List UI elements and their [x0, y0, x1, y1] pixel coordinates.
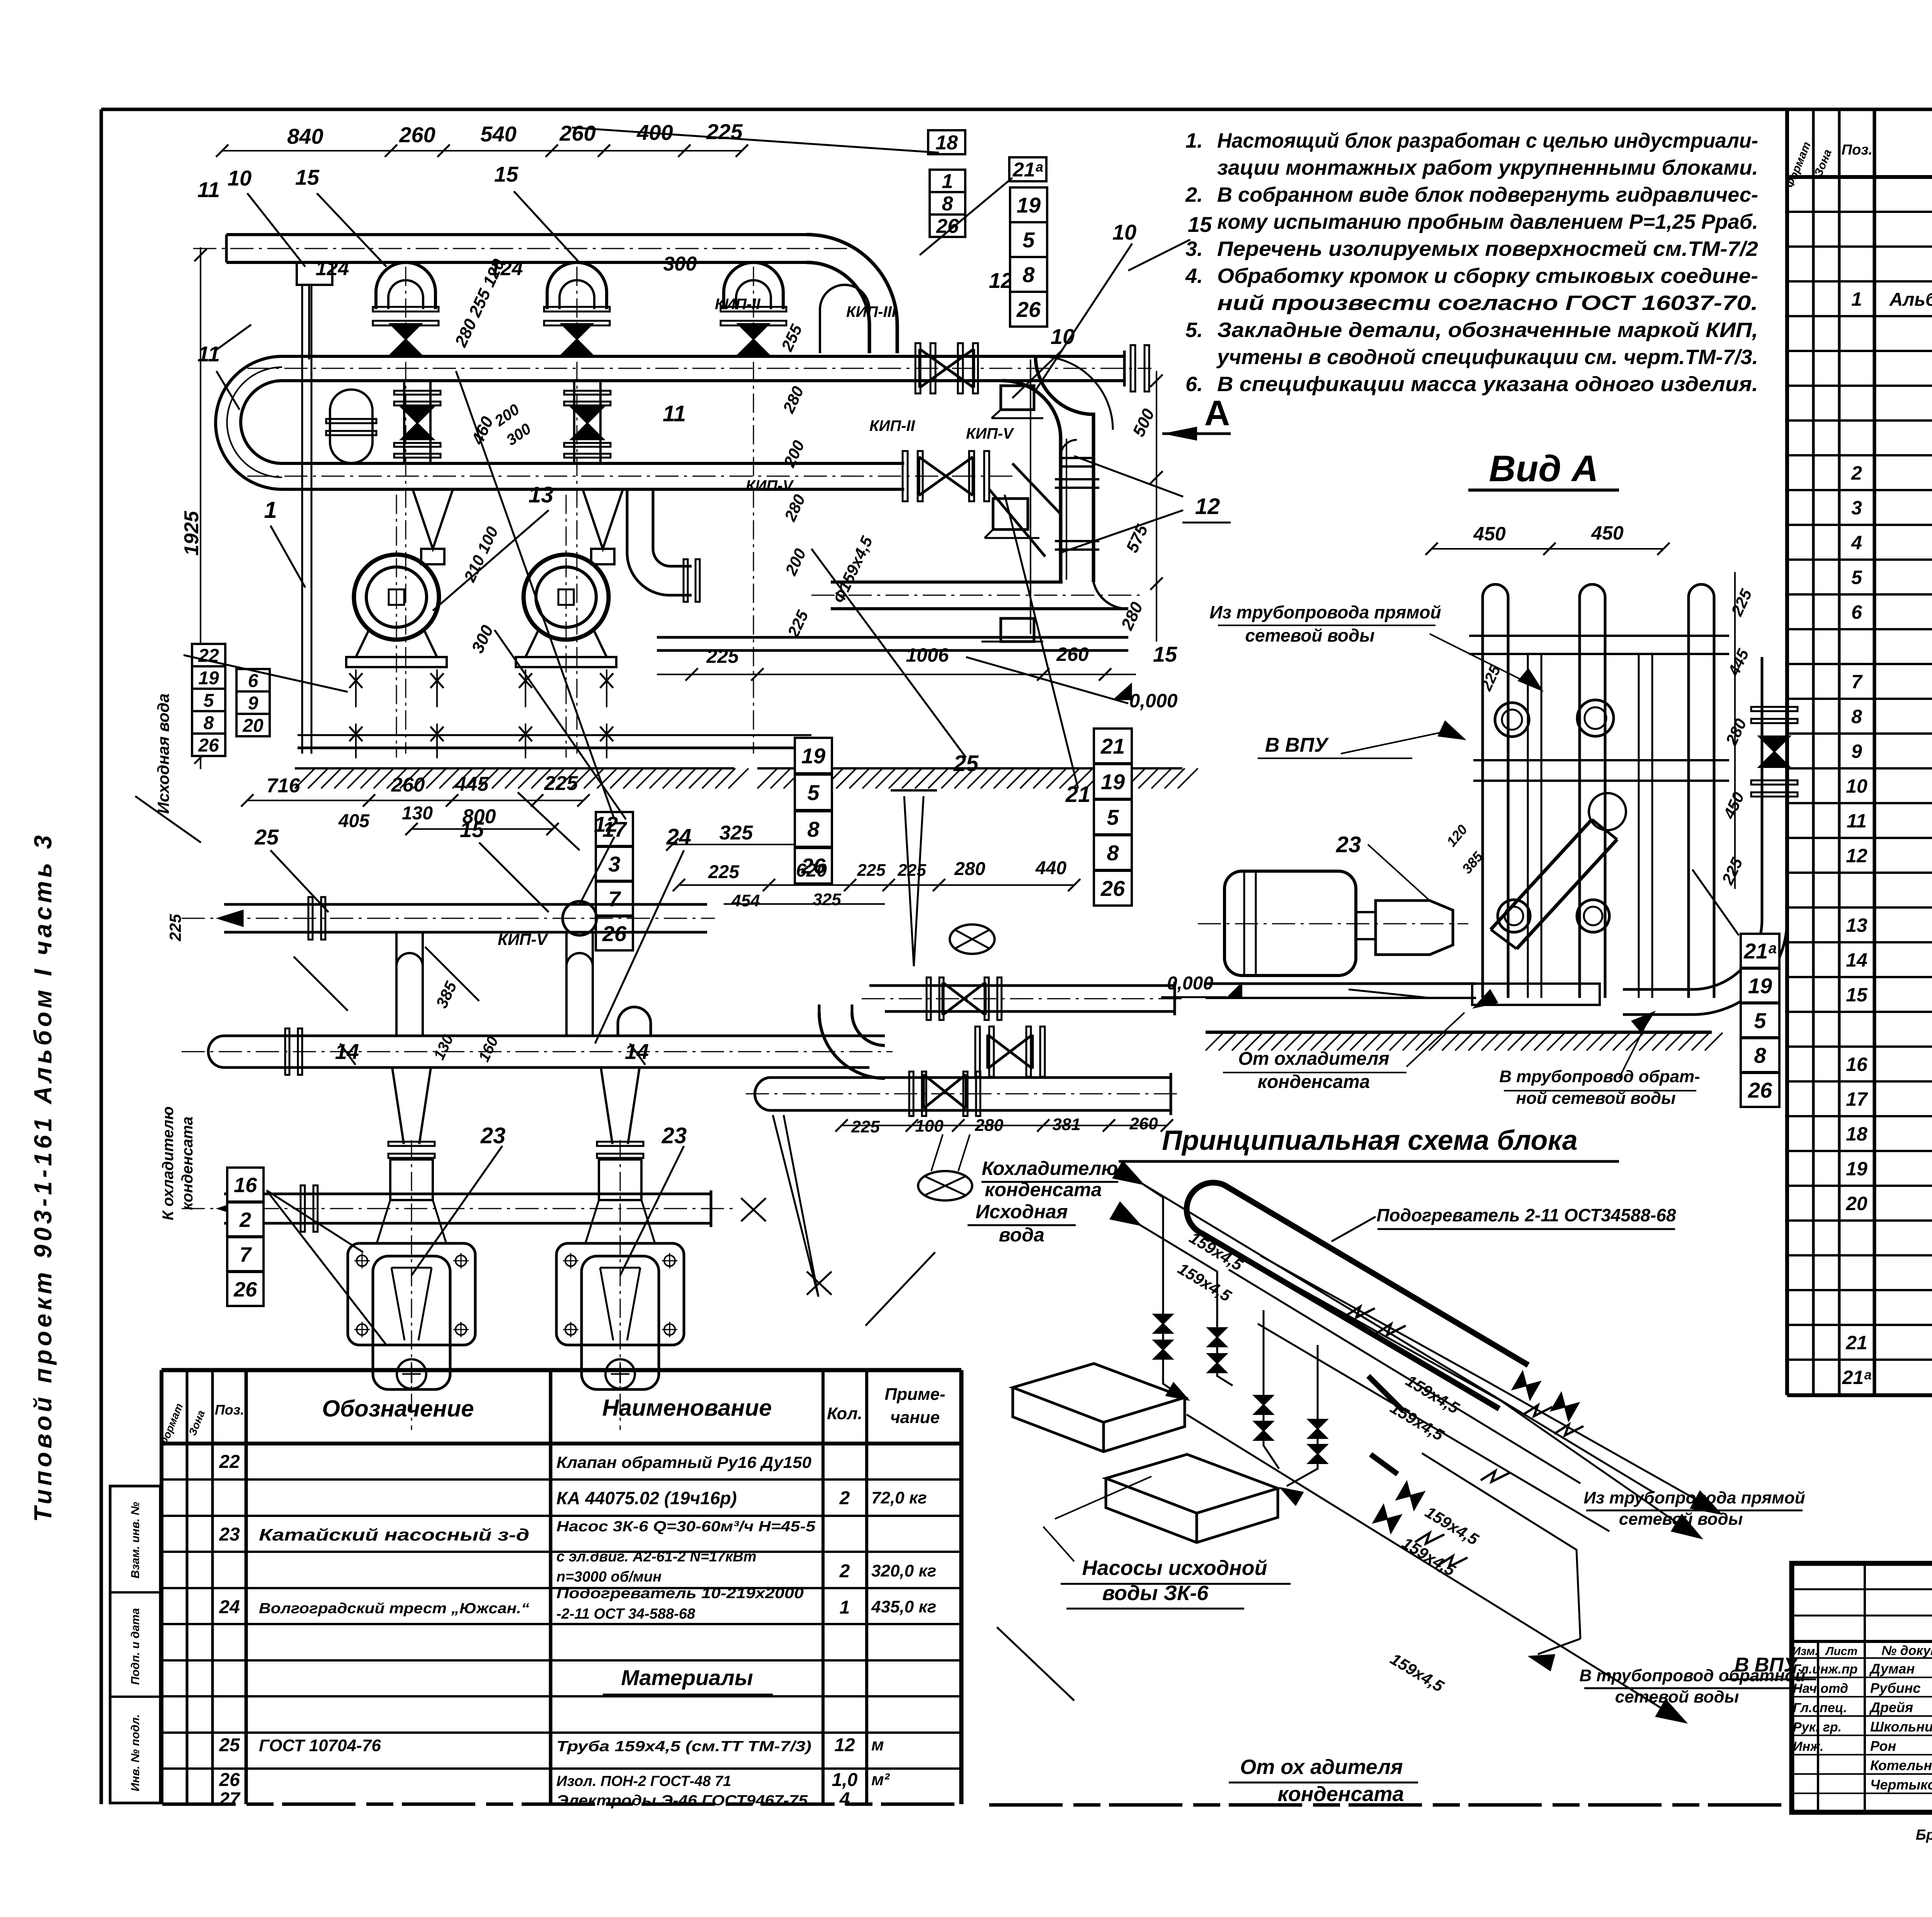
svg-text:Взам. инв. №: Взам. инв. № — [129, 1502, 142, 1578]
svg-text:А: А — [1204, 393, 1230, 433]
svg-text:300: 300 — [663, 253, 697, 275]
svg-text:320,0 кг: 320,0 кг — [871, 1561, 936, 1580]
svg-text:Лист: Лист — [1825, 1645, 1857, 1658]
svg-text:280: 280 — [781, 492, 809, 524]
svg-text:159х4,5: 159х4,5 — [1387, 1650, 1447, 1696]
svg-text:22: 22 — [219, 1452, 240, 1472]
svg-text:26: 26 — [1748, 1078, 1772, 1102]
svg-text:4: 4 — [839, 1789, 850, 1810]
svg-text:15: 15 — [460, 817, 484, 842]
svg-text:445: 445 — [455, 773, 489, 795]
svg-text:260: 260 — [1129, 1114, 1158, 1133]
svg-text:26: 26 — [1100, 876, 1125, 901]
svg-text:м: м — [871, 1735, 884, 1754]
svg-text:6: 6 — [248, 671, 259, 691]
svg-text:конденсата: конденсата — [1258, 1072, 1370, 1092]
svg-text:сетевой воды: сетевой воды — [1245, 625, 1374, 645]
svg-text:325: 325 — [719, 822, 753, 844]
svg-text:1: 1 — [840, 1597, 850, 1618]
svg-text:4: 4 — [1851, 532, 1862, 553]
svg-text:280: 280 — [1117, 599, 1147, 633]
svg-text:Рук. гр.: Рук. гр. — [1793, 1720, 1842, 1735]
svg-text:-2-11 ОСТ 34-588-68: -2-11 ОСТ 34-588-68 — [556, 1606, 696, 1622]
svg-text:2.: 2. — [1185, 183, 1203, 206]
svg-text:Вид А: Вид А — [1489, 448, 1598, 489]
svg-text:1006: 1006 — [906, 644, 949, 666]
svg-text:15: 15 — [1188, 212, 1212, 237]
svg-text:280: 280 — [1722, 716, 1750, 748]
svg-text:7: 7 — [1851, 671, 1863, 693]
svg-text:Перечень изолируемых поверхно: Перечень изолируемых поверхностей см.ТМ-… — [1217, 237, 1758, 260]
svg-text:200: 200 — [781, 546, 810, 578]
svg-text:300: 300 — [468, 622, 497, 656]
svg-text:26: 26 — [602, 921, 627, 946]
svg-text:210 100: 210 100 — [460, 524, 502, 585]
svg-text:13: 13 — [1846, 914, 1867, 936]
svg-text:Электроды Э-46 ГОСТ9467-75: Электроды Э-46 ГОСТ9467-75 — [556, 1793, 808, 1809]
svg-text:2: 2 — [1851, 462, 1862, 484]
svg-text:25: 25 — [953, 751, 979, 776]
svg-text:325: 325 — [813, 890, 841, 909]
svg-text:19: 19 — [1748, 974, 1772, 998]
svg-text:Исходная: Исходная — [976, 1201, 1068, 1222]
svg-text:12: 12 — [834, 1735, 855, 1755]
svg-text:15: 15 — [1153, 642, 1177, 666]
svg-text:Зона: Зона — [1812, 148, 1834, 179]
svg-text:Чертыкова: Чертыкова — [1870, 1777, 1932, 1793]
svg-text:540: 540 — [480, 122, 516, 146]
svg-text:1925: 1925 — [180, 511, 203, 556]
svg-text:24: 24 — [666, 824, 692, 850]
svg-text:Думан: Думан — [1869, 1661, 1915, 1677]
svg-text:120: 120 — [1443, 822, 1470, 850]
svg-text:15: 15 — [1846, 984, 1868, 1006]
svg-text:КИП-V: КИП-V — [746, 477, 794, 494]
svg-text:Изол. ПОН-2 ГОСТ-48 71: Изол. ПОН-2 ГОСТ-48 71 — [556, 1773, 731, 1789]
svg-text:8: 8 — [1107, 841, 1119, 865]
svg-text:0,000: 0,000 — [1167, 973, 1213, 994]
svg-text:225: 225 — [1718, 855, 1746, 888]
svg-text:405: 405 — [338, 811, 370, 831]
svg-text:Принципиальная схема блока: Принципиальная схема блока — [1162, 1125, 1578, 1156]
svg-text:1: 1 — [942, 170, 953, 193]
svg-text:вода: вода — [999, 1224, 1044, 1246]
svg-text:зации монтажных работ укрупнен: зации монтажных работ укрупненными блока… — [1217, 156, 1758, 179]
svg-text:27: 27 — [219, 1789, 241, 1810]
svg-text:кому испытанию пробным давлени: кому испытанию пробным давлением Р=1,25 … — [1217, 210, 1758, 233]
svg-text:620: 620 — [796, 860, 827, 881]
svg-text:450: 450 — [1591, 522, 1624, 544]
svg-text:225: 225 — [706, 119, 743, 144]
svg-text:Труба 159х4,5 (см.ТТ ТМ-7/3): Труба 159х4,5 (см.ТТ ТМ-7/3) — [556, 1738, 811, 1755]
svg-text:8: 8 — [942, 193, 953, 215]
svg-text:Кол.: Кол. — [827, 1404, 862, 1423]
svg-text:8: 8 — [1851, 706, 1862, 727]
svg-text:В собранном виде блок подверг: В собранном виде блок подвергнуть гидрав… — [1217, 183, 1758, 206]
svg-text:Котельников: Котельников — [1870, 1757, 1932, 1773]
svg-text:Катайский насосный з-д: Катайский насосный з-д — [259, 1525, 529, 1544]
svg-text:280: 280 — [779, 383, 807, 416]
svg-text:26: 26 — [198, 735, 219, 756]
svg-text:11: 11 — [663, 401, 686, 426]
svg-text:Рубинс: Рубинс — [1870, 1680, 1921, 1696]
svg-text:воды ЗК-6: воды ЗК-6 — [1102, 1582, 1209, 1605]
svg-text:В спецификации масса указана: В спецификации масса указана одного изде… — [1217, 373, 1758, 396]
svg-text:225: 225 — [166, 914, 184, 941]
svg-text:Подп. и дата: Подп. и дата — [129, 1608, 142, 1685]
svg-text:23: 23 — [662, 1123, 687, 1148]
svg-text:260: 260 — [399, 123, 435, 147]
svg-text:В ВПУ: В ВПУ — [1265, 734, 1329, 756]
svg-text:КИП-III: КИП-III — [846, 303, 896, 320]
svg-text:11: 11 — [1847, 810, 1867, 832]
svg-text:280: 280 — [975, 1116, 1003, 1135]
svg-text:15: 15 — [494, 162, 519, 186]
svg-text:5: 5 — [1022, 228, 1035, 252]
svg-text:м²: м² — [871, 1770, 890, 1789]
svg-text:8: 8 — [1022, 262, 1035, 287]
svg-text:От ох адителя: От ох адителя — [1240, 1755, 1403, 1779]
svg-text:160: 160 — [475, 1034, 502, 1064]
svg-text:385: 385 — [432, 979, 460, 1011]
svg-text:Подогреватель 2-11 ОСТ34588-68: Подогреватель 2-11 ОСТ34588-68 — [1376, 1205, 1676, 1225]
svg-text:Исходная вода: Исходная вода — [154, 693, 172, 814]
svg-text:КИП-II: КИП-II — [869, 417, 915, 434]
svg-text:Дрейя: Дрейя — [1869, 1699, 1913, 1715]
svg-text:К охладителю: К охладителю — [160, 1107, 177, 1221]
svg-text:21ᵃ: 21ᵃ — [1012, 159, 1043, 181]
svg-text:445: 445 — [1724, 646, 1752, 679]
svg-text:260: 260 — [1056, 644, 1089, 665]
svg-text:225: 225 — [851, 1117, 880, 1136]
svg-text:100: 100 — [915, 1117, 944, 1136]
svg-text:КА 44075.02 (19ч16р): КА 44075.02 (19ч16р) — [556, 1488, 737, 1508]
svg-text:225: 225 — [784, 608, 812, 640]
svg-text:225: 225 — [897, 861, 926, 880]
svg-text:Зона: Зона — [186, 1408, 207, 1437]
svg-text:6.: 6. — [1185, 373, 1203, 396]
svg-text:Обозначение: Обозначение — [322, 1396, 474, 1422]
svg-text:18: 18 — [935, 132, 958, 154]
svg-text:25: 25 — [219, 1735, 240, 1755]
svg-text:Наименование: Наименование — [602, 1395, 772, 1421]
svg-text:2: 2 — [839, 1488, 850, 1508]
svg-text:450: 450 — [1473, 523, 1506, 545]
svg-text:130: 130 — [402, 803, 433, 824]
svg-text:10: 10 — [228, 166, 252, 190]
svg-text:260: 260 — [559, 121, 595, 145]
svg-text:19: 19 — [1101, 770, 1125, 794]
svg-text:10: 10 — [1112, 220, 1136, 244]
svg-text:конденсата: конденсата — [179, 1117, 196, 1210]
svg-text:ГОСТ 10704-76: ГОСТ 10704-76 — [259, 1736, 381, 1755]
svg-text:26: 26 — [1016, 297, 1041, 322]
svg-text:3: 3 — [608, 852, 620, 876]
svg-text:12: 12 — [1846, 845, 1867, 867]
svg-text:17: 17 — [1846, 1088, 1868, 1110]
svg-text:конденсата: конденсата — [1277, 1783, 1404, 1806]
svg-text:20: 20 — [242, 715, 264, 736]
svg-text:Инв. № подл.: Инв. № подл. — [129, 1714, 142, 1791]
svg-text:19: 19 — [801, 744, 825, 768]
svg-text:19: 19 — [1017, 193, 1041, 217]
svg-text:В трубопровод обрат-: В трубопровод обрат- — [1499, 1067, 1700, 1086]
svg-text:6: 6 — [1851, 601, 1862, 623]
svg-text:4.: 4. — [1185, 264, 1203, 288]
svg-text:КИП-V: КИП-V — [966, 425, 1014, 442]
svg-text:ной сетевой воды: ной сетевой воды — [1516, 1089, 1675, 1108]
svg-text:11: 11 — [197, 342, 220, 366]
svg-text:Школьников: Школьников — [1870, 1719, 1932, 1735]
svg-text:Насосы исходной: Насосы исходной — [1082, 1556, 1267, 1580]
svg-text:Подогреватель 10-219х2000: Подогреватель 10-219х2000 — [556, 1585, 804, 1602]
svg-text:20: 20 — [1845, 1193, 1867, 1214]
svg-text:7: 7 — [240, 1243, 252, 1266]
svg-text:25: 25 — [254, 825, 279, 849]
svg-text:14: 14 — [1846, 949, 1867, 971]
svg-text:n=3000 об/мин: n=3000 об/мин — [556, 1569, 662, 1585]
svg-text:№ докум.: № докум. — [1881, 1643, 1932, 1658]
svg-text:435,0 кг: 435,0 кг — [871, 1597, 936, 1616]
svg-text:225: 225 — [708, 862, 740, 882]
svg-text:2: 2 — [839, 1561, 850, 1582]
svg-text:КИП-II: КИП-II — [715, 296, 761, 313]
svg-text:9: 9 — [248, 693, 259, 713]
svg-text:1: 1 — [264, 497, 277, 523]
svg-text:0,000: 0,000 — [1129, 690, 1177, 712]
svg-text:450: 450 — [1719, 789, 1748, 822]
svg-text:КИП-V: КИП-V — [498, 930, 548, 948]
svg-text:ний произвести согласно ГОСТ: ний произвести согласно ГОСТ 16037-70. — [1217, 291, 1758, 315]
svg-text:72,0 кг: 72,0 кг — [871, 1488, 927, 1507]
svg-text:Настоящий блок разработан с це: Настоящий блок разработан с целью индуст… — [1217, 129, 1758, 152]
svg-text:Инж.: Инж. — [1793, 1739, 1823, 1754]
svg-text:Рон: Рон — [1870, 1738, 1896, 1754]
svg-text:381: 381 — [1052, 1115, 1080, 1134]
svg-text:12: 12 — [594, 812, 618, 836]
svg-text:18: 18 — [1846, 1123, 1867, 1145]
svg-text:21: 21 — [1845, 1332, 1867, 1353]
svg-text:Насос 3К-6 Q=30-60м³/ч Н=45-5: Насос 3К-6 Q=30-60м³/ч Н=45-5 — [556, 1519, 816, 1535]
svg-text:225: 225 — [544, 772, 578, 795]
svg-text:1,0: 1,0 — [832, 1770, 858, 1790]
svg-text:225: 225 — [1727, 586, 1755, 619]
svg-text:1: 1 — [1851, 288, 1862, 310]
svg-text:716: 716 — [267, 775, 301, 797]
svg-text:23: 23 — [480, 1123, 506, 1148]
svg-text:2: 2 — [239, 1208, 251, 1231]
svg-text:Из трубопровода прямой: Из трубопровода прямой — [1209, 602, 1441, 622]
svg-text:Обработку кромок и сборку сты: Обработку кромок и сборку стыковых соеди… — [1217, 264, 1758, 288]
svg-text:23: 23 — [219, 1524, 240, 1545]
svg-text:Гл.спец.: Гл.спец. — [1793, 1701, 1847, 1715]
svg-text:260: 260 — [391, 774, 425, 796]
svg-text:Волгоградский трест „Южсан.“: Волгоградский трест „Южсан.“ — [259, 1600, 529, 1617]
svg-text:21ᵃ: 21ᵃ — [1842, 1367, 1872, 1388]
svg-text:Альбом: Альбом — [1889, 289, 1932, 310]
svg-text:Кохладителю: Кохладителю — [982, 1158, 1118, 1179]
svg-text:21: 21 — [1100, 734, 1125, 758]
svg-text:21ᵃ: 21ᵃ — [1743, 939, 1776, 963]
svg-text:Материалы: Материалы — [621, 1665, 753, 1690]
svg-text:8: 8 — [1754, 1043, 1766, 1067]
svg-text:26: 26 — [233, 1278, 257, 1301]
svg-text:5: 5 — [807, 780, 820, 805]
svg-text:15: 15 — [295, 165, 320, 189]
svg-text:5: 5 — [204, 690, 214, 711]
svg-text:5: 5 — [1754, 1008, 1766, 1033]
svg-text:200: 200 — [780, 438, 808, 470]
svg-text:225: 225 — [706, 645, 739, 667]
svg-text:конденсата: конденсата — [985, 1179, 1102, 1200]
svg-text:5: 5 — [1107, 805, 1119, 829]
svg-text:Из трубопровода прямой: Из трубопровода прямой — [1583, 1488, 1805, 1507]
svg-text:5: 5 — [1851, 567, 1862, 588]
svg-text:16: 16 — [1846, 1054, 1868, 1075]
svg-text:Поз.: Поз. — [1842, 142, 1873, 158]
svg-text:23: 23 — [1336, 832, 1361, 857]
svg-text:8: 8 — [807, 817, 820, 841]
svg-text:225: 225 — [857, 861, 886, 880]
svg-text:13: 13 — [529, 482, 554, 507]
svg-text:840: 840 — [287, 124, 323, 148]
svg-text:учтены в сводной спецификации: учтены в сводной спецификации см. черт.Т… — [1216, 346, 1758, 369]
svg-text:Поз.: Поз. — [215, 1402, 244, 1418]
svg-text:12: 12 — [1195, 494, 1220, 519]
svg-text:Закладные детали, обозначенные: Закладные детали, обозначенные маркой КИ… — [1217, 318, 1758, 342]
svg-text:500: 500 — [1129, 406, 1158, 440]
svg-text:280: 280 — [954, 859, 985, 879]
svg-text:5.: 5. — [1185, 318, 1203, 342]
svg-text:Типовой проект 903-1-161 Ал: Типовой проект 903-1-161 Альбом I часть … — [29, 832, 57, 1522]
svg-text:19: 19 — [1846, 1158, 1867, 1180]
svg-text:9: 9 — [1851, 741, 1862, 762]
svg-text:24: 24 — [219, 1597, 240, 1617]
svg-text:7: 7 — [608, 887, 621, 911]
svg-text:От охладителя: От охладителя — [1238, 1049, 1389, 1069]
svg-text:280 255 120: 280 255 120 — [451, 256, 509, 350]
svg-text:В трубопровод обратной: В трубопровод обратной — [1579, 1666, 1805, 1685]
svg-text:440: 440 — [1035, 858, 1066, 878]
svg-text:19: 19 — [198, 668, 219, 688]
svg-text:454: 454 — [731, 891, 760, 910]
svg-text:124: 124 — [316, 257, 349, 280]
svg-text:10: 10 — [1846, 775, 1867, 797]
svg-text:сетевой воды: сетевой воды — [1619, 1510, 1743, 1529]
svg-text:Приме-: Приме- — [884, 1385, 945, 1404]
svg-text:сетевой воды: сетевой воды — [1615, 1687, 1739, 1706]
svg-text:26: 26 — [219, 1770, 240, 1790]
svg-text:1.: 1. — [1185, 129, 1203, 152]
svg-text:Брошюра: Брошюра — [1916, 1827, 1932, 1843]
svg-text:3: 3 — [1851, 497, 1862, 519]
svg-text:чание: чание — [890, 1408, 940, 1427]
svg-text:11: 11 — [197, 177, 220, 202]
svg-text:16: 16 — [234, 1173, 257, 1197]
svg-text:8: 8 — [204, 713, 214, 733]
svg-text:с эл.двиг. А2-61-2 N=17кВт: с эл.двиг. А2-61-2 N=17кВт — [556, 1549, 757, 1565]
svg-text:Клапан обратный Ру16 Ду150: Клапан обратный Ру16 Ду150 — [556, 1453, 811, 1471]
